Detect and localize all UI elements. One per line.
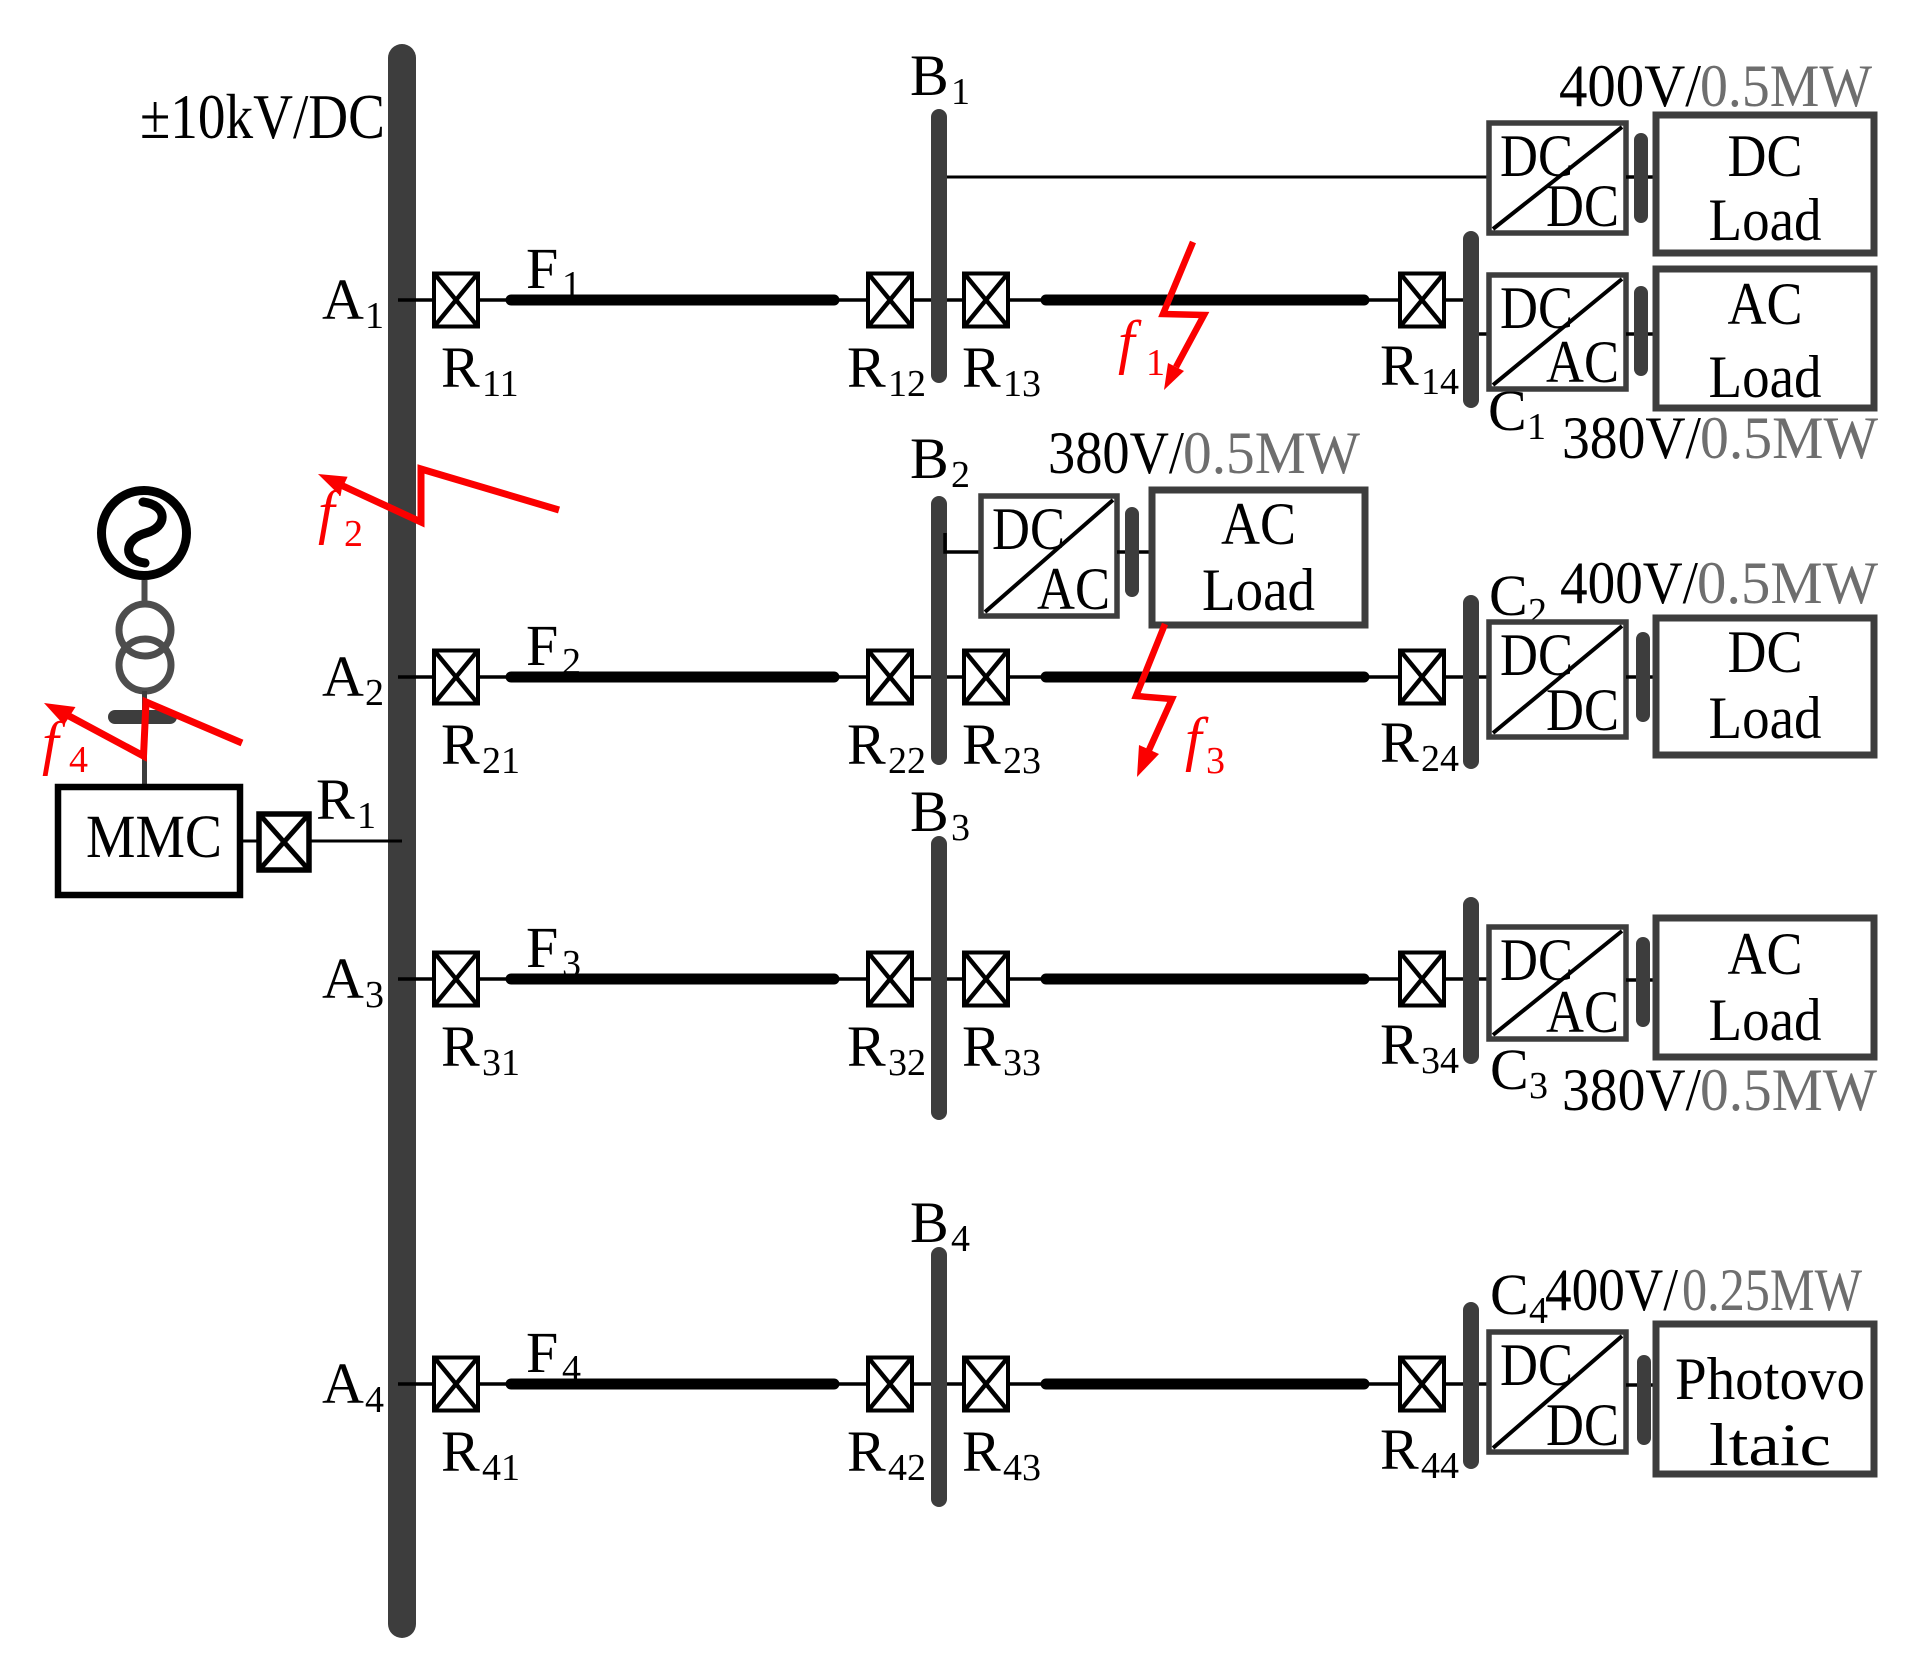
svg-text:2: 2 — [951, 454, 970, 496]
svg-text:R: R — [962, 712, 1001, 777]
converter DC/AC row3 — [1489, 927, 1626, 1045]
wire converter to DC Load row2 — [1626, 675, 1656, 679]
svg-text:±10kV/DC: ±10kV/DC — [140, 81, 385, 152]
svg-text:AC: AC — [1037, 556, 1110, 622]
svg-text:380V/: 380V/ — [1562, 1057, 1701, 1123]
bus B2 — [931, 496, 947, 765]
label label R41 — [441, 1419, 520, 1489]
breaker R44 — [1400, 1358, 1444, 1411]
wire R21 to F2 — [480, 675, 512, 679]
wire to R32 — [832, 977, 866, 981]
svg-text:C: C — [1489, 563, 1528, 628]
label label R11 — [441, 335, 519, 405]
svg-text:DC: DC — [1728, 619, 1803, 685]
bus B4 — [931, 1247, 947, 1507]
wire transformer-MMC — [142, 691, 147, 790]
wire bus to R31 — [398, 977, 432, 981]
svg-text:Load: Load — [1202, 557, 1315, 623]
label 380V/0.5MW row1 — [1562, 405, 1878, 471]
cable F4 segment b — [1046, 1379, 1364, 1390]
fault f4 bolt — [44, 702, 242, 756]
svg-text:F: F — [526, 236, 558, 301]
wire to R12 — [832, 298, 866, 302]
wire R42-B4-R43 — [914, 1382, 962, 1386]
svg-text:42: 42 — [888, 1447, 926, 1489]
svg-text:0.5MW: 0.5MW — [1700, 405, 1878, 471]
svg-text:R: R — [962, 1014, 1001, 1079]
wire R34 to C3 — [1446, 977, 1489, 981]
grounding bar — [108, 710, 177, 724]
fault f2 label — [318, 479, 363, 555]
breaker R41 — [434, 1358, 478, 1411]
wire R31 to F3 — [480, 977, 512, 981]
label label B2 — [910, 426, 970, 496]
capacitor row4 — [1637, 1355, 1651, 1445]
label label B4 — [910, 1190, 970, 1260]
svg-text:3: 3 — [951, 807, 970, 849]
svg-text:DC: DC — [1500, 1332, 1573, 1398]
wire B2 to aux converter — [945, 533, 981, 552]
converter DC/DC row2 — [1489, 622, 1626, 743]
svg-text:A: A — [322, 1351, 364, 1416]
wire converter to AC Load row3 — [1626, 978, 1656, 982]
bus B3 — [931, 836, 947, 1120]
label label B3 — [910, 779, 970, 849]
breaker R34 — [1400, 953, 1444, 1006]
svg-text:A: A — [322, 946, 364, 1011]
svg-text:F: F — [526, 613, 558, 678]
breaker R24 — [1400, 651, 1444, 704]
capacitor row1 top — [1634, 133, 1648, 223]
label 380V/0.5MW row2 aux — [1048, 420, 1360, 486]
label label R24 — [1380, 710, 1459, 780]
wire C1 to DC/AC converter — [1471, 332, 1489, 336]
svg-text:3: 3 — [365, 974, 384, 1016]
label 400V/0.5MW row1 — [1559, 53, 1872, 119]
label label F3 — [526, 915, 581, 985]
wire to R22 — [832, 675, 866, 679]
breaker R12 — [868, 274, 912, 327]
svg-text:0.5MW: 0.5MW — [1697, 550, 1878, 616]
wire bus to R21 — [398, 675, 432, 679]
bus B1 — [931, 109, 947, 383]
svg-text:R: R — [441, 712, 480, 777]
svg-text:C: C — [1490, 1037, 1529, 1102]
svg-text:F: F — [526, 915, 558, 980]
wire to R44 — [1365, 1382, 1398, 1386]
svg-text:400V/: 400V/ — [1560, 550, 1698, 616]
svg-text:DC: DC — [1546, 677, 1619, 743]
breaker R11 — [434, 274, 478, 327]
svg-text:1: 1 — [1146, 342, 1165, 384]
svg-text:R: R — [847, 335, 886, 400]
wire to R14 — [1365, 298, 1398, 302]
svg-text:DC: DC — [1546, 173, 1619, 239]
label node A4 label — [322, 1351, 384, 1421]
wire bus to R41 — [398, 1382, 432, 1386]
svg-text:12: 12 — [888, 363, 926, 405]
svg-text:AC: AC — [1546, 329, 1619, 395]
breaker R13 — [964, 274, 1008, 327]
cable F3 segment a — [511, 974, 834, 985]
wire to R34 — [1365, 977, 1398, 981]
wire B1 to DC/DC converter — [941, 176, 1489, 179]
svg-text:31: 31 — [482, 1042, 520, 1084]
label 400V/0.5MW row2 — [1560, 550, 1878, 616]
label label F2 — [526, 613, 581, 683]
label 400V/0.25MW row4 — [1545, 1257, 1862, 1323]
svg-text:2: 2 — [344, 513, 363, 555]
wire to R42 — [832, 1382, 866, 1386]
svg-text:21: 21 — [482, 740, 520, 782]
bus C4 — [1463, 1302, 1479, 1469]
converter DC/DC row4 — [1489, 1332, 1626, 1458]
label label R21 — [441, 712, 520, 782]
transformer T — [119, 604, 171, 691]
svg-text:1: 1 — [1527, 406, 1546, 448]
cable F3 segment b — [1046, 974, 1364, 985]
box AC Load row3 — [1656, 918, 1874, 1057]
label label R42 — [847, 1419, 926, 1489]
svg-text:B: B — [910, 779, 949, 844]
label label R31 — [441, 1014, 520, 1084]
svg-text:1: 1 — [357, 795, 376, 837]
label node A1 label — [322, 267, 384, 337]
label label R22 — [847, 712, 926, 782]
svg-text:R: R — [1380, 1012, 1419, 1077]
svg-text:f: f — [1118, 309, 1142, 375]
svg-text:3: 3 — [1529, 1065, 1548, 1107]
svg-text:DC: DC — [1546, 1392, 1619, 1458]
svg-text:Load: Load — [1709, 344, 1822, 410]
svg-text:14: 14 — [1421, 361, 1459, 403]
cable F1 segment a — [511, 295, 834, 306]
label node A3 label — [322, 946, 384, 1016]
label node A2 label — [322, 644, 384, 714]
svg-text:32: 32 — [888, 1042, 926, 1084]
svg-text:44: 44 — [1421, 1445, 1459, 1487]
svg-text:Load: Load — [1709, 987, 1822, 1053]
label label R32 — [847, 1014, 926, 1084]
label label C3 — [1490, 1037, 1548, 1107]
svg-text:43: 43 — [1003, 1447, 1041, 1489]
wire R32-B3-R33 — [914, 977, 962, 981]
svg-text:R: R — [962, 1419, 1001, 1484]
svg-text:R: R — [441, 1014, 480, 1079]
breaker R22 — [868, 651, 912, 704]
wire R14 to C1 — [1446, 298, 1471, 302]
label label R12 — [847, 335, 926, 405]
svg-text:R: R — [441, 1419, 480, 1484]
cable F2 segment a — [511, 672, 834, 683]
breaker R1 — [259, 814, 309, 870]
label label B1 — [910, 43, 970, 113]
wire R33 to line — [1010, 977, 1045, 981]
svg-text:B: B — [910, 426, 949, 491]
converter MMC box — [58, 787, 240, 895]
svg-text:AC: AC — [1221, 491, 1296, 557]
svg-text:380V/: 380V/ — [1562, 405, 1701, 471]
cable F2 segment b — [1046, 672, 1364, 683]
svg-text:1: 1 — [951, 71, 970, 113]
svg-text:Photovo: Photovo — [1675, 1346, 1865, 1412]
svg-text:11: 11 — [482, 363, 519, 405]
svg-text:34: 34 — [1421, 1040, 1459, 1082]
label label R43 — [962, 1419, 1041, 1489]
svg-text:A: A — [322, 644, 364, 709]
box AC Load row2 aux — [1152, 490, 1365, 625]
label label R14 — [1380, 333, 1459, 403]
svg-text:41: 41 — [482, 1447, 520, 1489]
label label C1 — [1488, 378, 1546, 448]
svg-text:13: 13 — [1003, 363, 1041, 405]
wire R23 to line — [1010, 675, 1045, 679]
label label C4 — [1490, 1262, 1548, 1332]
label label F4 — [526, 1320, 581, 1390]
svg-text:4: 4 — [365, 1379, 384, 1421]
wire R22-B2-R23 — [914, 675, 962, 679]
svg-text:R: R — [316, 767, 355, 832]
svg-text:Load: Load — [1709, 685, 1822, 751]
bus C1 — [1463, 231, 1479, 408]
breaker R33 — [964, 953, 1008, 1006]
breaker R43 — [964, 1358, 1008, 1411]
label 380V/0.5MW row3 — [1562, 1057, 1877, 1123]
AC source G — [102, 491, 187, 576]
svg-text:R: R — [847, 1014, 886, 1079]
bus C3 — [1463, 897, 1479, 1064]
capacitor row2 aux — [1125, 507, 1139, 597]
wire R12-B1-R13 — [914, 298, 962, 302]
svg-text:B: B — [910, 1190, 949, 1255]
svg-text:F: F — [526, 1320, 558, 1385]
svg-text:380V/: 380V/ — [1048, 420, 1184, 486]
cable F4 segment a — [511, 1379, 834, 1390]
wire to R24 — [1365, 675, 1398, 679]
wire R1 to main bus — [309, 840, 402, 843]
label label R33 — [962, 1014, 1041, 1084]
svg-text:1: 1 — [365, 295, 384, 337]
wire aux converter to AC load — [1117, 550, 1155, 554]
wire R24 to C2 — [1446, 675, 1489, 679]
svg-text:AC: AC — [1728, 271, 1803, 337]
box DC Load row1 — [1656, 115, 1874, 253]
box DC Load row2 — [1656, 618, 1874, 755]
svg-text:4: 4 — [951, 1218, 970, 1260]
wire converter to AC Load row1 — [1626, 332, 1656, 336]
wire bus to R11 — [398, 298, 432, 302]
svg-text:R: R — [441, 335, 480, 400]
main DC bus ±10kV — [388, 44, 416, 1638]
box Photovoltaic row4 — [1656, 1324, 1874, 1478]
fault f4 label — [42, 710, 88, 781]
wire R41 to F4 — [480, 1382, 512, 1386]
breaker R14 — [1400, 274, 1444, 327]
breaker R21 — [434, 651, 478, 704]
wire source-transformer — [142, 580, 148, 606]
svg-text:400V/: 400V/ — [1559, 53, 1701, 119]
svg-text:0.5MW: 0.5MW — [1700, 53, 1872, 119]
box AC Load row1 — [1656, 269, 1874, 410]
label label R13 — [962, 335, 1041, 405]
wire converter to DC Load row1 — [1626, 175, 1656, 179]
capacitor row3 — [1636, 937, 1650, 1027]
svg-text:R: R — [847, 1419, 886, 1484]
svg-text:22: 22 — [888, 740, 926, 782]
fault f1 label — [1118, 309, 1165, 384]
converter DC/AC row2 aux — [981, 496, 1117, 622]
svg-text:AC: AC — [1728, 921, 1803, 987]
fault f3 bolt — [1136, 624, 1172, 777]
svg-text:MMC: MMC — [86, 804, 222, 871]
svg-text:4: 4 — [69, 739, 88, 781]
svg-text:R: R — [962, 335, 1001, 400]
fault f2 bolt — [318, 469, 559, 522]
svg-text:R: R — [1380, 333, 1419, 398]
label label F1 — [526, 236, 581, 306]
svg-text:DC: DC — [1728, 123, 1803, 189]
svg-text:33: 33 — [1003, 1042, 1041, 1084]
svg-text:B: B — [910, 43, 949, 108]
breaker R42 — [868, 1358, 912, 1411]
wire R11 to F1 — [480, 298, 512, 302]
svg-text:Load: Load — [1709, 187, 1822, 253]
fault f1 bolt — [1163, 242, 1204, 390]
cable F1 segment b — [1046, 295, 1364, 306]
label label R44 — [1380, 1417, 1459, 1487]
svg-text:3: 3 — [1206, 740, 1225, 782]
svg-text:R: R — [1380, 1417, 1419, 1482]
svg-text:C: C — [1490, 1262, 1529, 1327]
label label R1 — [316, 767, 376, 837]
wire converter to Photovoltaic row4 — [1626, 1383, 1656, 1387]
svg-text:2: 2 — [365, 672, 384, 714]
wire R13 to line — [1010, 298, 1045, 302]
svg-text:23: 23 — [1003, 740, 1041, 782]
converter DC/DC row1 — [1489, 123, 1626, 239]
wire R44 to C4 — [1446, 1382, 1489, 1386]
breaker R31 — [434, 953, 478, 1006]
svg-text:0.25MW: 0.25MW — [1682, 1257, 1862, 1323]
svg-text:R: R — [1380, 710, 1419, 775]
svg-text:400V/: 400V/ — [1545, 1257, 1678, 1323]
fault f3 label — [1185, 706, 1225, 782]
svg-text:R: R — [847, 712, 886, 777]
label label C2 — [1489, 563, 1547, 633]
converter DC/AC row1 — [1489, 275, 1626, 395]
svg-text:AC: AC — [1546, 979, 1619, 1045]
capacitor row2 — [1636, 632, 1650, 722]
wire R43 to line — [1010, 1382, 1045, 1386]
svg-text:A: A — [322, 267, 364, 332]
svg-text:0.5MW: 0.5MW — [1183, 420, 1360, 486]
capacitor row1 bottom — [1634, 286, 1648, 376]
svg-text:24: 24 — [1421, 738, 1459, 780]
svg-text:0.5MW: 0.5MW — [1700, 1057, 1877, 1123]
wire MMC to R1 — [240, 840, 259, 843]
label label R34 — [1380, 1012, 1459, 1082]
svg-text:DC: DC — [992, 496, 1065, 562]
bus C2 — [1463, 595, 1479, 769]
svg-text:ltaic: ltaic — [1709, 1412, 1831, 1478]
label label R23 — [962, 712, 1041, 782]
breaker R32 — [868, 953, 912, 1006]
breaker R23 — [964, 651, 1008, 704]
